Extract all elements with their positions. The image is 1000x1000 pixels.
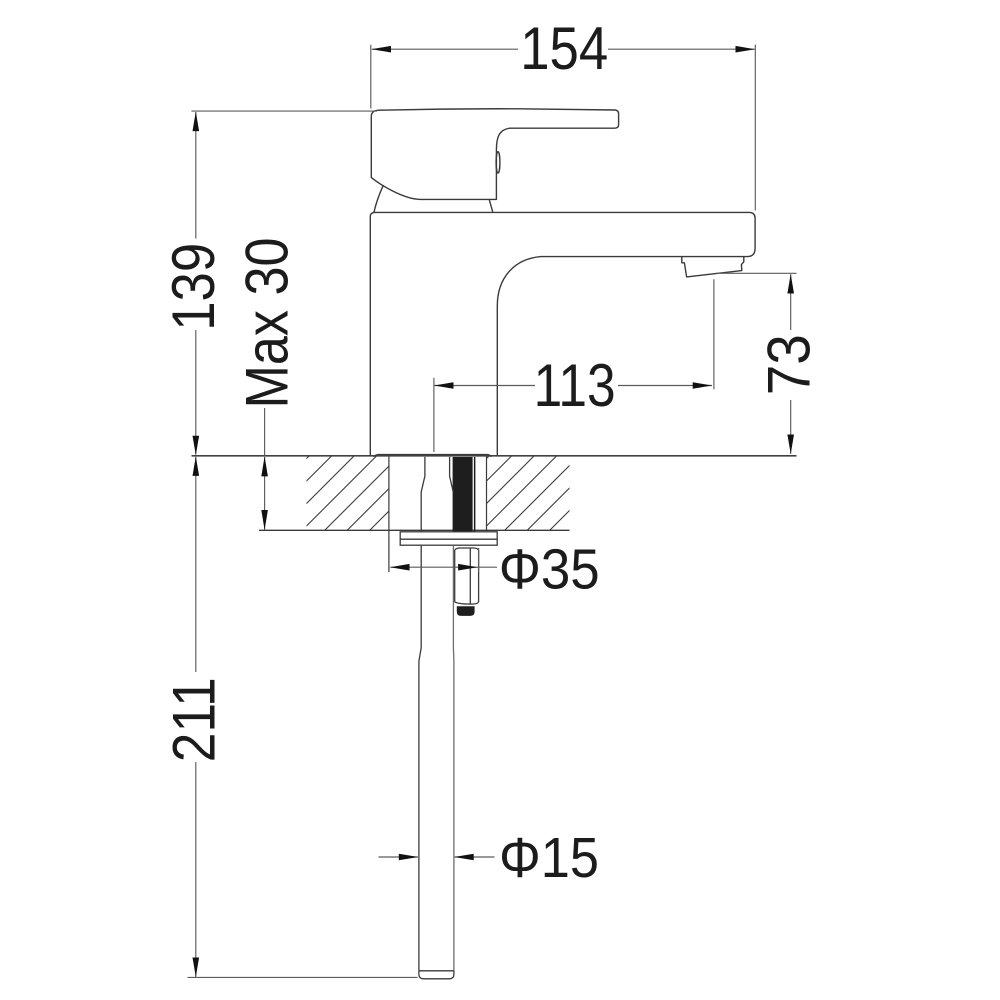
svg-text:73: 73 bbox=[756, 334, 823, 395]
dimension texts bbox=[160, 15, 823, 890]
aerator bbox=[682, 257, 744, 277]
arrow phi35 left bbox=[390, 564, 410, 571]
threaded stud (black) bbox=[453, 457, 473, 532]
dim line 73 bbox=[790, 274, 792, 454]
arrow phi15 right(points left) bbox=[454, 854, 474, 861]
stud thin right line bbox=[474, 457, 476, 532]
hole right edge line bbox=[486, 456, 488, 530]
dim line phi15 right bbox=[455, 856, 495, 858]
ext line 113 right bbox=[713, 279, 715, 389]
dim line 139 bbox=[195, 112, 197, 455]
arrow 154 left bbox=[372, 46, 392, 53]
max30 dim line bbox=[264, 457, 266, 530]
arrow 113 right bbox=[693, 382, 713, 389]
arrow 113 left bbox=[434, 382, 454, 389]
mounting washer plate bbox=[400, 532, 497, 545]
arrowheads bbox=[193, 46, 795, 977]
ext line 154 left bbox=[370, 45, 372, 109]
handle skirt right bbox=[489, 200, 492, 212]
arrow phi15 left(points right) bbox=[399, 854, 419, 861]
arrow phi35 right bbox=[458, 564, 478, 571]
ext line phi35 right bbox=[478, 548, 480, 572]
arrow 211 bottom bbox=[193, 958, 200, 978]
handle lever blob bbox=[371, 109, 618, 200]
max30 leader bbox=[264, 408, 266, 456]
ext line 154 right bbox=[754, 45, 756, 211]
svg-text:Max 30: Max 30 bbox=[234, 238, 301, 409]
handle skirt left bbox=[374, 186, 383, 213]
svg-text:211: 211 bbox=[161, 677, 228, 762]
arrow max30 down bbox=[261, 510, 268, 530]
arrow 73 bottom bbox=[787, 435, 794, 455]
svg-text:139: 139 bbox=[160, 243, 227, 331]
arrow max30 up bbox=[261, 456, 268, 476]
arrow 139 bottom bbox=[193, 436, 200, 456]
arrow 139 top bbox=[193, 112, 200, 132]
svg-text:Φ15: Φ15 bbox=[499, 826, 599, 890]
dim line phi15 left bbox=[379, 856, 418, 858]
svg-text:113: 113 bbox=[534, 352, 616, 419]
counter hatch left block bbox=[307, 456, 389, 530]
dim line 211 bbox=[195, 457, 197, 977]
dim line 154 bbox=[372, 48, 755, 50]
dim line 113 bbox=[434, 385, 712, 387]
arrow 211 top bbox=[193, 456, 200, 476]
faucet base seam bbox=[374, 455, 491, 457]
ext line 73 top bbox=[716, 272, 797, 274]
hole left edge line bbox=[388, 456, 390, 572]
ext line 139 top bbox=[191, 110, 377, 112]
supply pipe lower section bbox=[419, 545, 454, 979]
counter hatch right block bbox=[487, 456, 570, 530]
handle pivot ellipse bbox=[496, 152, 500, 173]
stud end below nut (black) bbox=[457, 606, 475, 616]
counter surface line bbox=[192, 455, 797, 457]
ext line 211 bottom bbox=[188, 976, 418, 978]
svg-text:154: 154 bbox=[520, 15, 608, 82]
arrow 154 right bbox=[736, 46, 756, 53]
svg-text:Φ35: Φ35 bbox=[499, 538, 600, 602]
mounting nut bbox=[455, 548, 479, 605]
arrow 73 top bbox=[787, 274, 794, 294]
dim line phi35 bbox=[390, 566, 497, 568]
ext line 113 left bbox=[433, 378, 435, 452]
spout body outline bbox=[370, 212, 755, 456]
supply pipe upper section bbox=[421, 457, 453, 532]
counter bottom line bbox=[259, 529, 570, 531]
